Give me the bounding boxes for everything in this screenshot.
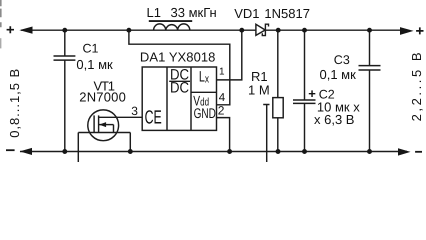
arrow input top (left-pointing) — [19, 27, 32, 34]
arrowhead VT1 substrate — [99, 122, 106, 127]
capacitor C1 plates — [54, 55, 76, 57]
node dot C1 top — [62, 28, 67, 33]
svg-text:2N7000: 2N7000 — [79, 90, 126, 105]
arrow input bottom (left-pointing) — [20, 148, 32, 155]
svg-text:DC: DC — [170, 80, 189, 97]
IC DA1 box — [142, 67, 216, 130]
transistor VT1 gate bar — [93, 115, 95, 132]
label minus output — [415, 151, 422, 153]
label minus input — [6, 149, 15, 151]
label plus output — [416, 27, 423, 34]
transistor VT1 circle — [88, 110, 119, 141]
node dot C2 top — [302, 28, 307, 33]
resistor R1 bottom lead — [277, 118, 279, 152]
svg-text:1N5817: 1N5817 — [264, 6, 310, 21]
svg-text:R1: R1 — [251, 69, 268, 84]
arrow output top (right-pointing) — [400, 27, 414, 35]
node dot GND bottom — [227, 149, 232, 154]
node dot Vdd feed top — [126, 28, 131, 33]
IC divider CE / middle — [166, 67, 168, 130]
inductor L1 underline — [149, 20, 192, 22]
IC divider Lx cell bottom — [191, 91, 217, 93]
terminal T bar — [263, 104, 269, 106]
wire top rail right segment — [265, 29, 408, 31]
resistor R1 top lead — [277, 30, 279, 97]
svg-text:4: 4 — [219, 92, 226, 104]
svg-text:2: 2 — [218, 103, 225, 117]
transistor VT1 substrate-source vertical — [113, 125, 115, 133]
wire pin 3 CE from VT1 drain — [99, 116, 143, 118]
svg-text:0,8...1,5 В: 0,8...1,5 В — [7, 69, 22, 138]
svg-text:GND: GND — [194, 105, 216, 121]
svg-text:1 М: 1 М — [248, 83, 270, 98]
svg-text:+: + — [308, 86, 316, 101]
IC divider middle / right — [190, 67, 192, 130]
transistor VT1 channel bar — [98, 115, 100, 132]
svg-text:1: 1 — [219, 67, 225, 78]
svg-text:0,1 мк: 0,1 мк — [76, 57, 113, 72]
node dot C1 bottom — [62, 149, 67, 154]
arrow output bottom (right-pointing) — [398, 148, 411, 155]
capacitor C1 leads — [64, 30, 66, 56]
capacitor C2 top lead — [304, 30, 306, 100]
edge mark left faint — [0, 38, 2, 48]
svg-text:3: 3 — [131, 104, 138, 118]
svg-text:0,1 мк: 0,1 мк — [320, 67, 357, 82]
node dot R1 bottom — [276, 149, 281, 154]
node dot Lx riser top — [239, 28, 244, 33]
diode VD1 triangle — [256, 24, 265, 35]
svg-text:C1: C1 — [83, 42, 99, 56]
capacitor C3 plates — [359, 65, 381, 67]
wire top rail left segment — [21, 29, 256, 31]
wire VT1 source drop to rail — [129, 133, 131, 152]
wire pin 2 GND down to rail — [217, 118, 230, 152]
svg-text:VD1: VD1 — [234, 6, 259, 21]
node dot C3 bottom — [367, 149, 372, 154]
wire pin 1 Lx to riser — [217, 30, 242, 80]
wire VT1 gate-source horizontal — [78, 132, 130, 134]
svg-text:L1: L1 — [147, 5, 161, 20]
wire VT1 gate drop off image bottom — [77, 133, 79, 163]
resistor R1 body — [273, 98, 283, 118]
node dot VT1 source bottom — [128, 149, 133, 154]
svg-text:CE: CE — [145, 108, 162, 129]
svg-text:33 мкГн: 33 мкГн — [171, 5, 217, 20]
inductor L1 — [154, 24, 190, 30]
wire bottom rail — [20, 151, 407, 153]
capacitor C3 bottom lead — [369, 70, 371, 152]
svg-text:х 6,3 В: х 6,3 В — [314, 112, 354, 127]
node dot C3 top — [367, 28, 372, 33]
svg-text:DA1 YX8018: DA1 YX8018 — [140, 50, 216, 65]
capacitor C3 top lead — [369, 30, 371, 65]
node dot C2 bottom — [302, 149, 307, 154]
node dot R1 top — [276, 28, 281, 33]
wire Vdd feed: rail dot down, right, down to pin 4 — [129, 30, 230, 105]
IC DC/DC fraction bar — [169, 80, 190, 82]
wire terminal stem off image bottom — [266, 105, 268, 163]
capacitor C2 plates — [293, 99, 316, 101]
svg-text:C3: C3 — [334, 53, 350, 67]
capacitor C2 bottom lead — [304, 103, 306, 151]
diode VD1 schottky bar — [262, 24, 268, 35]
label plus input — [7, 26, 14, 33]
transistor VT1 substrate line — [99, 124, 114, 126]
edge mark top left — [0, 0, 2, 27]
